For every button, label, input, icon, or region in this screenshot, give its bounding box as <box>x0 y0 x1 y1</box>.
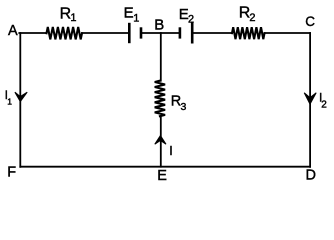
svg-text:2: 2 <box>249 12 255 24</box>
current arrow I (up) <box>155 136 166 145</box>
wire F to E to D (bottom) <box>20 166 310 168</box>
svg-text:F: F <box>7 164 16 180</box>
wire C to D (right branch) <box>309 33 311 167</box>
wire E1 to node B to E2 <box>142 32 179 34</box>
svg-text:C: C <box>305 14 315 29</box>
current arrow I2 (down) <box>304 93 316 104</box>
svg-text:E: E <box>157 168 167 184</box>
svg-text:A: A <box>8 23 18 39</box>
svg-text:B: B <box>154 17 164 34</box>
svg-text:2: 2 <box>321 100 327 111</box>
resistor R1 <box>47 27 83 39</box>
svg-text:2: 2 <box>188 14 194 26</box>
wire R1 to E1 <box>82 32 128 34</box>
current arrow I1 (down) <box>15 92 27 101</box>
resistor R3 <box>155 81 165 117</box>
wire R3 to E <box>160 116 162 167</box>
svg-text:1: 1 <box>133 12 139 24</box>
wire B to R3 <box>160 33 162 81</box>
svg-text:1: 1 <box>7 97 12 107</box>
resistor R2 <box>232 27 265 39</box>
svg-text:3: 3 <box>181 101 187 113</box>
wire A to R1 <box>19 32 46 34</box>
wire R2 to C <box>265 32 311 34</box>
wire E2 to R2 <box>193 32 232 34</box>
svg-text:I: I <box>169 144 172 158</box>
battery E2 <box>180 23 192 44</box>
battery E1 <box>129 23 141 43</box>
svg-text:D: D <box>306 168 316 184</box>
svg-text:1: 1 <box>70 12 76 24</box>
svg-text:E: E <box>124 5 134 22</box>
wire A to F (left branch) <box>19 33 21 167</box>
